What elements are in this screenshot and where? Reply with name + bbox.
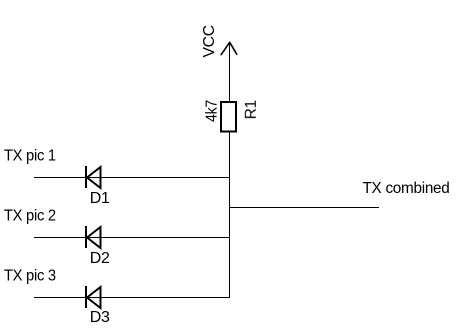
svg-text:4k7: 4k7 <box>204 100 221 122</box>
svg-text:R1: R1 <box>243 100 260 119</box>
wire bus from resistor down to D3 <box>229 132 231 299</box>
svg-text:D1: D1 <box>90 190 110 207</box>
diode D3 <box>86 286 101 308</box>
wire TX pic 3 line <box>34 297 230 299</box>
svg-text:TX combined: TX combined <box>363 180 450 197</box>
diode D1 <box>86 166 101 188</box>
wire VCC stem to resistor <box>229 42 231 102</box>
svg-text:TX pic 2: TX pic 2 <box>4 208 56 225</box>
wire TX combined line <box>229 207 379 209</box>
svg-text:D3: D3 <box>90 309 110 326</box>
svg-text:TX pic 1: TX pic 1 <box>4 148 56 165</box>
diode D2 <box>86 226 101 248</box>
wire TX pic 2 line <box>34 237 230 239</box>
svg-text:TX pic 3: TX pic 3 <box>4 268 56 285</box>
wire TX pic 1 line <box>34 177 230 179</box>
resistor R1 body <box>221 102 236 132</box>
VCC power arrow <box>221 42 237 54</box>
svg-text:D2: D2 <box>90 250 110 267</box>
svg-text:VCC: VCC <box>201 25 218 57</box>
